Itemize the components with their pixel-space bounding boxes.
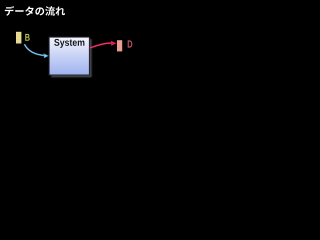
System box shadow [51,39,92,77]
icon B (yellow document) [16,32,21,44]
System box label [54,39,84,48]
wire: red arrow System to D [90,41,117,48]
title データの流れ [5,6,65,16]
wire: blue arrow B to System [24,44,48,58]
label B [25,34,30,41]
System box [49,37,89,75]
label D [128,40,133,47]
icon D (pink document) [117,40,122,51]
